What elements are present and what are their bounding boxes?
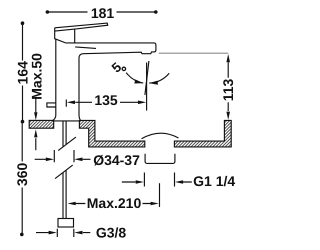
5 degree arc right xyxy=(149,73,169,83)
drain cup G1 1/4 xyxy=(145,154,175,164)
supply pipe upper xyxy=(63,121,66,147)
5 degree tilted line xyxy=(145,61,149,95)
dim 181 line xyxy=(47,11,155,13)
dim 181 dot left xyxy=(46,10,50,14)
spout reference line gray xyxy=(159,52,229,54)
G3/8 nut xyxy=(58,219,74,228)
base bottom xyxy=(52,120,81,122)
supply pipe lower xyxy=(63,170,66,218)
pipe break upper diagonal xyxy=(58,137,76,151)
dim 360 dot bottom xyxy=(20,233,24,237)
svg-text:Max.210: Max.210 xyxy=(87,195,142,211)
counter step block to basin xyxy=(79,120,144,146)
svg-text:G1 1/4: G1 1/4 xyxy=(193,173,235,189)
dim Ø34-37 xyxy=(35,150,91,162)
counter left block xyxy=(29,120,54,128)
spout junction inner line xyxy=(75,47,96,49)
Max.50 upper arrow xyxy=(35,99,37,113)
dim 135 xyxy=(66,100,138,107)
svg-text:181: 181 xyxy=(91,5,115,21)
Max.50 lower arrow xyxy=(35,138,37,150)
5 degree arc left xyxy=(126,73,143,84)
dim 360 line xyxy=(21,122,23,235)
basin right block with column xyxy=(174,120,231,146)
dim G1 1/4 xyxy=(122,173,192,187)
svg-text:G3/8: G3/8 xyxy=(96,224,127,240)
dim G3/8 xyxy=(36,229,90,237)
svg-text:113: 113 xyxy=(220,78,236,101)
small rect on body left xyxy=(47,103,56,107)
faucet body and spout outline xyxy=(52,39,156,121)
svg-text:Ø34-37: Ø34-37 xyxy=(93,152,140,168)
dim 113 xyxy=(227,62,229,111)
pipe break lower diagonal xyxy=(55,165,73,179)
svg-text:135: 135 xyxy=(94,92,118,108)
svg-text:Max.50: Max.50 xyxy=(28,53,44,100)
dim 164 line xyxy=(22,23,24,121)
dim 181 dot right xyxy=(154,10,158,14)
drain dome xyxy=(142,133,179,139)
dim 164 dot top xyxy=(21,21,25,25)
shared dot counter level xyxy=(21,120,25,124)
circuit-style labelled technical drawing of basin mixer tap xyxy=(0,0,250,250)
drain rod xyxy=(159,183,161,207)
faucet lever handle xyxy=(55,23,108,43)
dim Max.210 xyxy=(76,203,153,205)
5 degree vertical line xyxy=(146,63,148,111)
svg-text:360: 360 xyxy=(14,163,30,187)
